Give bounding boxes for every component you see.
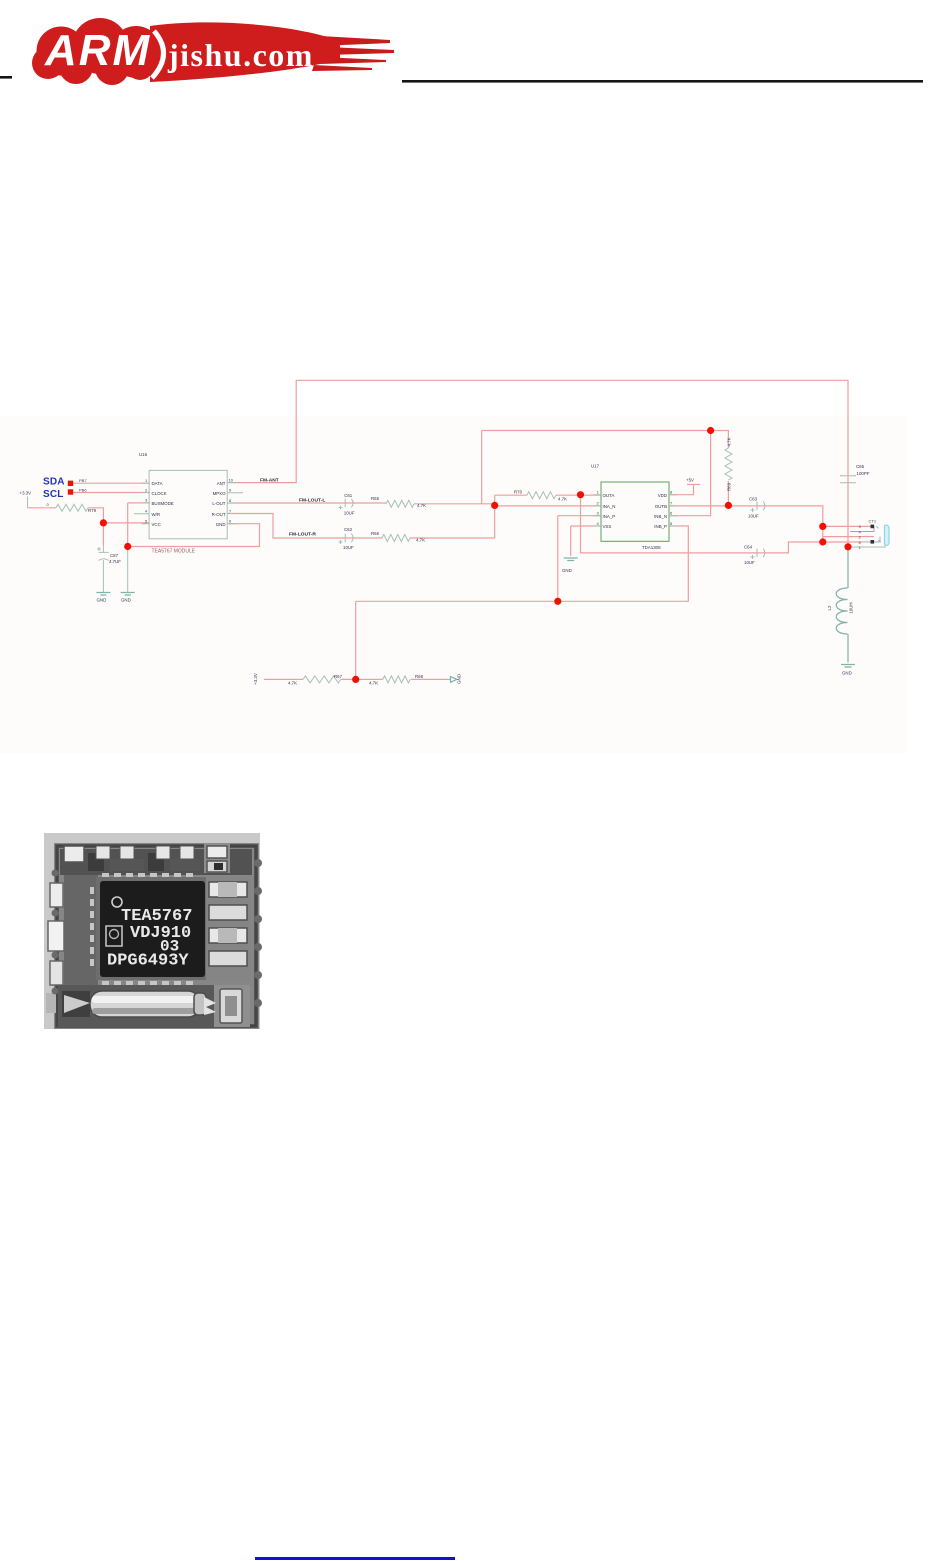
- svg-text:FM-LOUT-L: FM-LOUT-L: [299, 498, 325, 504]
- svg-text:R67: R67: [334, 674, 343, 679]
- svg-text:C65: C65: [856, 464, 865, 469]
- svg-text:C63: C63: [749, 497, 758, 502]
- svg-text:INB_N: INB_N: [654, 514, 667, 519]
- svg-text:INB_P: INB_P: [654, 524, 667, 529]
- svg-text:10UF: 10UF: [748, 514, 759, 519]
- svg-text:GND: GND: [457, 674, 462, 684]
- svg-text:TDA1308: TDA1308: [642, 545, 661, 550]
- svg-text:L2: L2: [827, 605, 832, 610]
- svg-text:SDA: SDA: [43, 477, 65, 488]
- svg-text:INA_N: INA_N: [603, 504, 616, 509]
- svg-text:ANT: ANT: [217, 481, 226, 486]
- svg-text:FM-ANT: FM-ANT: [260, 478, 279, 484]
- svg-text:TEA5767 MODULE: TEA5767 MODULE: [152, 549, 196, 555]
- svg-text:SCL: SCL: [43, 489, 64, 500]
- svg-text:GND: GND: [97, 598, 107, 603]
- svg-text:+3.3V: +3.3V: [253, 673, 258, 685]
- svg-text:10UF: 10UF: [343, 545, 354, 550]
- svg-text:OUTB: OUTB: [655, 504, 667, 509]
- svg-text:4.7K: 4.7K: [417, 503, 426, 508]
- svg-text:100PF: 100PF: [857, 471, 870, 476]
- svg-text:CT1: CT1: [869, 519, 877, 524]
- svg-text:FM-LOUT-R: FM-LOUT-R: [289, 532, 316, 538]
- svg-text:R70: R70: [514, 490, 523, 495]
- svg-text:4.7UF: 4.7UF: [109, 559, 121, 564]
- svg-text:W/R: W/R: [152, 512, 161, 517]
- svg-text:DATA: DATA: [152, 481, 163, 486]
- svg-text:C87: C87: [110, 553, 119, 558]
- svg-text:PB7: PB7: [79, 478, 87, 483]
- svg-text:R69: R69: [727, 482, 732, 491]
- svg-text:4.7K: 4.7K: [416, 538, 425, 543]
- svg-text:U16: U16: [139, 452, 148, 457]
- svg-text:BUSMODE: BUSMODE: [152, 501, 174, 506]
- svg-text:C64: C64: [744, 545, 753, 550]
- svg-text:GND: GND: [562, 568, 572, 573]
- svg-text:C61: C61: [344, 493, 353, 498]
- svg-text:10UH: 10UH: [849, 602, 854, 613]
- svg-text:4.7K: 4.7K: [727, 437, 732, 446]
- svg-text:jishu.com: jishu.com: [167, 37, 314, 73]
- svg-text:VCC: VCC: [152, 522, 161, 527]
- svg-text:4.7K: 4.7K: [369, 681, 378, 686]
- svg-text:CLOCK: CLOCK: [152, 491, 167, 496]
- svg-text:U17: U17: [591, 464, 600, 469]
- svg-text:VSS: VSS: [603, 524, 612, 529]
- svg-text:10UF: 10UF: [344, 510, 355, 515]
- svg-text:MPXO: MPXO: [213, 491, 227, 496]
- svg-text:L-OUT: L-OUT: [212, 501, 225, 506]
- svg-text:PB6: PB6: [79, 487, 87, 492]
- svg-text:OUTA: OUTA: [603, 493, 615, 498]
- svg-text:R79: R79: [88, 508, 97, 513]
- svg-text:10: 10: [229, 478, 234, 483]
- svg-text:GND: GND: [216, 522, 226, 527]
- svg-text:10UF: 10UF: [744, 560, 755, 565]
- svg-text:INA_P: INA_P: [603, 514, 616, 519]
- svg-text:R65: R65: [371, 496, 380, 501]
- svg-text:4.7K: 4.7K: [558, 497, 567, 502]
- svg-text:+5V: +5V: [686, 478, 694, 483]
- svg-text:DPG6493Y: DPG6493Y: [107, 952, 189, 971]
- svg-text:+3.3V: +3.3V: [20, 491, 32, 496]
- svg-text:GND: GND: [121, 598, 131, 603]
- svg-text:R-OUT: R-OUT: [212, 512, 226, 517]
- svg-text:4.7K: 4.7K: [288, 681, 297, 686]
- svg-text:GND: GND: [842, 671, 852, 676]
- svg-text:R68: R68: [415, 674, 424, 679]
- svg-text:VDD: VDD: [658, 493, 667, 498]
- svg-text:C62: C62: [344, 527, 353, 532]
- svg-text:ARM: ARM: [44, 26, 151, 75]
- svg-text:R66: R66: [371, 531, 380, 536]
